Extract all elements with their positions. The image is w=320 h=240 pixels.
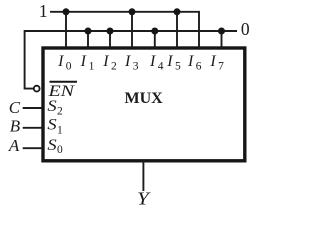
svg-text:2: 2	[111, 61, 117, 73]
svg-text:A: A	[8, 136, 20, 155]
svg-text:I: I	[80, 53, 87, 70]
svg-text:0: 0	[241, 19, 250, 39]
svg-text:0: 0	[57, 144, 63, 156]
svg-text:1: 1	[89, 61, 95, 73]
svg-text:C: C	[9, 98, 21, 117]
svg-text:B: B	[10, 117, 21, 136]
svg-text:4: 4	[158, 61, 164, 73]
svg-text:1: 1	[39, 1, 48, 21]
svg-text:I: I	[166, 53, 173, 70]
svg-text:2: 2	[57, 106, 63, 118]
svg-text:I: I	[124, 53, 131, 70]
svg-text:5: 5	[175, 61, 181, 73]
svg-text:I: I	[149, 53, 156, 70]
svg-text:0: 0	[66, 61, 72, 73]
svg-text:S: S	[47, 117, 57, 134]
svg-text:I: I	[187, 53, 194, 70]
svg-text:3: 3	[133, 61, 139, 73]
svg-text:S: S	[47, 98, 57, 115]
svg-text:MUX: MUX	[125, 90, 164, 107]
svg-text:6: 6	[196, 61, 202, 73]
svg-text:S: S	[47, 137, 57, 154]
svg-text:I: I	[102, 53, 109, 70]
svg-text:I: I	[209, 53, 216, 70]
svg-text:1: 1	[57, 125, 63, 137]
svg-text:7: 7	[218, 61, 224, 73]
svg-text:I: I	[57, 53, 64, 70]
